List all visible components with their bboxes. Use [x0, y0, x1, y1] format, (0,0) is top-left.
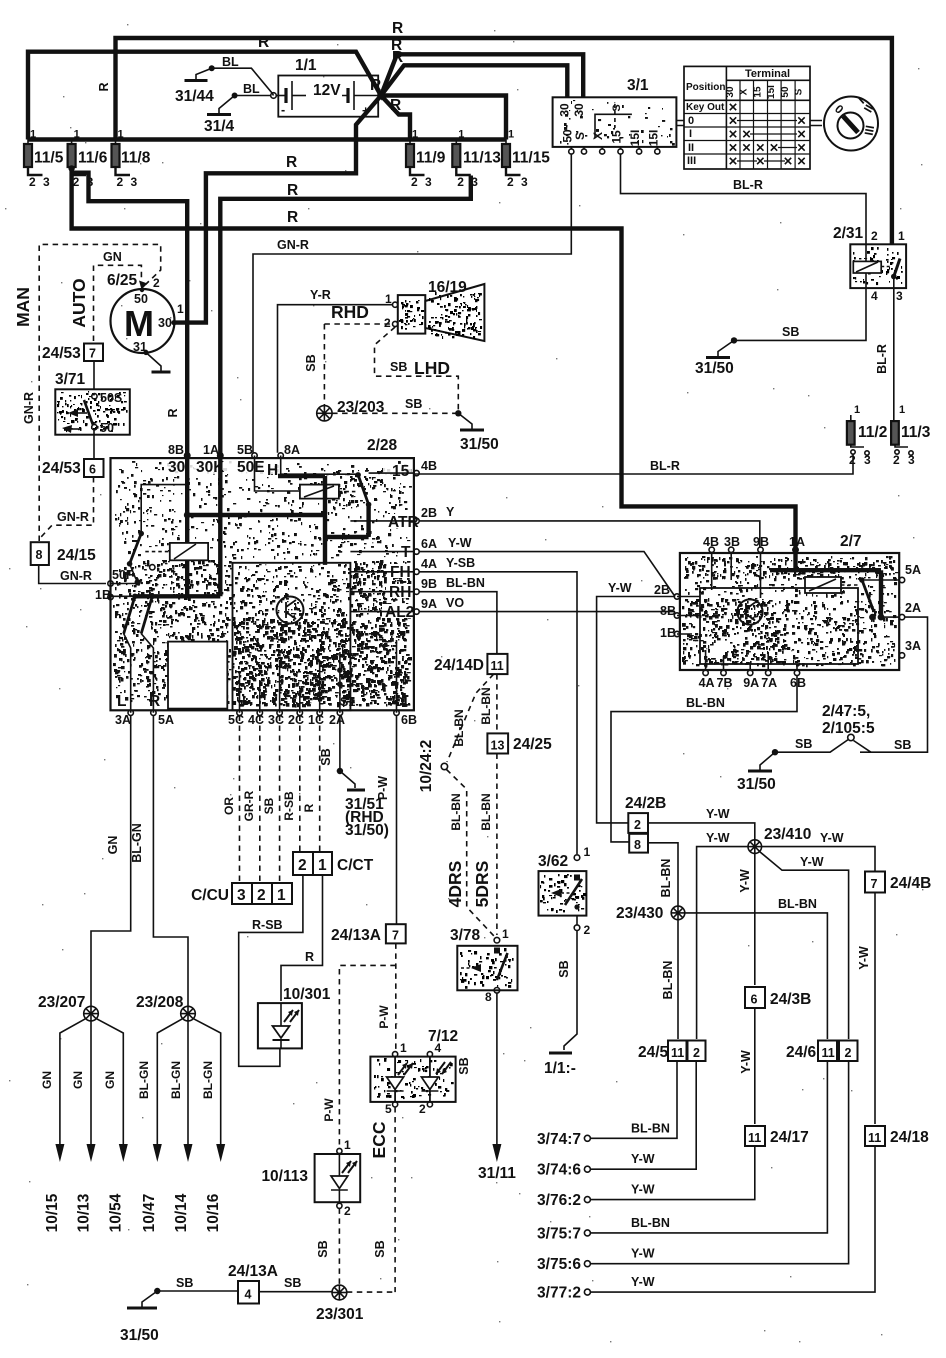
wire P-W 6B to 24/13A — [396, 716, 398, 925]
svg-text:7: 7 — [89, 347, 96, 361]
svg-text:8A: 8A — [284, 443, 300, 457]
svg-text:1C: 1C — [308, 713, 324, 727]
wire SB LHD dashed — [375, 327, 459, 410]
node 3/74:7 — [584, 1135, 590, 1141]
wire fan 23/207 — [60, 1019, 123, 1144]
svg-text:4B: 4B — [421, 459, 437, 473]
svg-text:11/3: 11/3 — [901, 424, 931, 441]
svg-text:50S: 50S — [100, 391, 122, 405]
svg-text:31/44: 31/44 — [175, 88, 214, 105]
svg-text:X: X — [591, 132, 605, 140]
svg-text:6: 6 — [89, 463, 96, 477]
wire BL-BN to 24/14D — [419, 592, 497, 653]
svg-text:3/71: 3/71 — [55, 371, 86, 388]
svg-text:GN-R: GN-R — [57, 510, 89, 524]
lamp 10/301 — [258, 986, 331, 1048]
svg-text:2: 2 — [384, 316, 391, 330]
svg-text:R: R — [149, 693, 160, 710]
lamp 10/113 — [261, 1138, 360, 1218]
switch 3/62 — [538, 845, 591, 937]
wire OR dashed — [239, 716, 241, 884]
svg-text:30: 30 — [558, 103, 572, 117]
relay unit 2/28 — [95, 437, 437, 727]
svg-text:24/53: 24/53 — [42, 345, 81, 362]
svg-text:31/50: 31/50 — [695, 360, 734, 377]
svg-text:BL-R: BL-R — [733, 178, 763, 192]
fuse 11/9 — [406, 144, 414, 167]
ground 31/50 bottom left — [154, 1288, 160, 1294]
svg-text:SB: SB — [782, 325, 799, 339]
wire GR-R dashed — [259, 716, 261, 884]
connector C/CU — [232, 883, 252, 904]
ignition switch 3/1 — [553, 77, 677, 154]
wire Y-W 23/410 left to 24/5 — [697, 847, 748, 1039]
svg-text:3A: 3A — [115, 713, 131, 727]
svg-text:15: 15 — [752, 86, 763, 98]
connector 2/47:5 2/105:5 — [854, 741, 871, 753]
svg-text:GN: GN — [103, 250, 122, 264]
wire BL-BN 2/7 6B down — [611, 676, 797, 842]
node motor pin 2 arrow — [139, 281, 148, 290]
fuse 11/2 — [847, 404, 887, 467]
svg-text:11/8: 11/8 — [121, 150, 151, 167]
node 3/75:7 — [584, 1230, 590, 1236]
wire R dashed — [319, 716, 321, 853]
wire SB 2/31 pin4 to ground — [734, 288, 866, 340]
connector 24/53 pin 6 — [84, 459, 104, 477]
svg-text:AL2: AL2 — [385, 604, 414, 621]
fuse 11/13 — [452, 144, 460, 167]
wire R F — [173, 96, 381, 323]
svg-text:R: R — [370, 77, 381, 94]
svg-text:3C: 3C — [268, 713, 284, 727]
wire BL-BN dashed to 10/24:2 — [447, 674, 494, 762]
junction 23/430 — [671, 906, 685, 920]
svg-text:1: 1 — [854, 404, 860, 416]
svg-text:6/25: 6/25 — [107, 272, 138, 289]
svg-text:2: 2 — [893, 453, 900, 467]
wire Y to 2/7 9B — [419, 521, 760, 547]
fuse 11/6 — [68, 144, 76, 167]
svg-text:11/15: 11/15 — [512, 150, 550, 167]
svg-text:11/13: 11/13 — [463, 150, 501, 167]
junction 23/410 — [748, 840, 762, 854]
svg-text:2: 2 — [29, 175, 36, 189]
svg-text:-: - — [281, 103, 285, 117]
svg-text:3: 3 — [896, 289, 903, 303]
ground 31/50 by 23/203 — [458, 413, 472, 430]
svg-text:Key Out: Key Out — [686, 102, 725, 113]
ground 31/50 top right — [718, 340, 734, 357]
svg-text:S: S — [794, 88, 805, 95]
svg-text:L: L — [117, 693, 126, 710]
connector 24/25 pin 13 — [487, 733, 508, 753]
svg-text:1: 1 — [508, 129, 514, 141]
wire R-SB to 10/301 — [239, 875, 303, 1066]
svg-text:1: 1 — [177, 302, 184, 316]
wire SB 2/7 2A to ground run — [860, 617, 928, 752]
svg-text:I: I — [689, 128, 692, 140]
arrow out — [119, 1144, 128, 1162]
wire Y-W 23/410 down — [754, 853, 756, 985]
svg-text:50: 50 — [134, 292, 148, 306]
wire Y-SB to 3/62 — [419, 572, 577, 854]
wire R D — [381, 96, 506, 140]
wire SB 2A to 31/51 — [339, 716, 341, 772]
svg-text:X: X — [739, 88, 750, 95]
wire R top A — [116, 38, 892, 257]
wire to 3/71 — [93, 361, 95, 394]
svg-text:BL: BL — [243, 82, 260, 96]
wire BL-BN 24/2B 8 to 23/430 — [648, 843, 678, 906]
svg-text:GN-R: GN-R — [60, 569, 92, 583]
svg-text:BL: BL — [222, 55, 239, 69]
wire BL-R 2/31 pin3 to fuse 11/3 — [893, 277, 895, 422]
svg-text:Y-W: Y-W — [448, 536, 472, 550]
svg-text:1: 1 — [458, 129, 464, 141]
svg-text:RHD: RHD — [331, 302, 369, 322]
svg-text:1A: 1A — [203, 443, 219, 457]
svg-text:11/5: 11/5 — [34, 150, 64, 167]
svg-text:II: II — [688, 142, 694, 154]
svg-text:3/1: 3/1 — [627, 77, 649, 94]
svg-text:0: 0 — [688, 115, 694, 127]
svg-text:GN-R: GN-R — [22, 392, 36, 424]
2/28 inner module box — [233, 563, 351, 711]
svg-text:Terminal: Terminal — [745, 68, 790, 80]
wire BL-R 3/1 pin15 to 2/31 — [621, 154, 867, 244]
wire Y-R 2/28 8A to 16/19 — [278, 305, 393, 453]
wire SB to 24/13A 4 — [157, 1290, 238, 1292]
wires below 24/6 — [591, 1061, 828, 1233]
wire BL-BN 23/430 down to 24/5 — [677, 920, 679, 1039]
svg-text:31/50: 31/50 — [460, 436, 499, 453]
svg-text:S1: S1 — [340, 695, 355, 709]
svg-text:3: 3 — [425, 175, 432, 189]
switch 3/71 — [55, 371, 130, 435]
svg-text:VO: VO — [446, 596, 464, 610]
svg-text:BL-BN: BL-BN — [446, 576, 485, 590]
svg-text:R: R — [166, 408, 180, 417]
wire R B — [28, 52, 583, 140]
svg-text:1: 1 — [898, 229, 905, 243]
svg-text:M: M — [124, 303, 154, 344]
2/28 internal relay 1 — [280, 456, 282, 477]
svg-text:2: 2 — [153, 276, 160, 290]
svg-text:16/19: 16/19 — [428, 279, 467, 296]
wire to 24/53 pin 6 — [93, 430, 95, 459]
junction 23/208 — [181, 1006, 196, 1021]
svg-text:15: 15 — [392, 463, 410, 480]
2/7 inner box — [700, 588, 858, 664]
svg-text:4A: 4A — [421, 557, 437, 571]
arrow out — [153, 1144, 162, 1162]
svg-text:5A: 5A — [158, 713, 174, 727]
horn 16/19 — [384, 279, 484, 341]
ignition key symbol — [676, 94, 878, 150]
svg-text:S: S — [573, 132, 587, 140]
ground 31/44 — [196, 68, 212, 80]
svg-text:30: 30 — [572, 103, 586, 117]
svg-text:SB: SB — [304, 354, 318, 371]
svg-text:1: 1 — [118, 129, 124, 141]
dashed MAN route — [39, 244, 161, 541]
arrow out — [184, 1144, 193, 1162]
2/28 internal relay 2 — [141, 485, 187, 534]
connector 24/18 — [865, 1126, 885, 1146]
wire fan 23/208 — [157, 1019, 220, 1144]
svg-text:3: 3 — [131, 175, 138, 189]
node 3/77:2 — [584, 1289, 590, 1295]
svg-text:3: 3 — [43, 175, 50, 189]
svg-text:R: R — [286, 154, 297, 171]
svg-text:5C: 5C — [228, 713, 244, 727]
svg-text:2: 2 — [507, 175, 514, 189]
wire GN-R 3/1 pin50 to 2/28 5B — [253, 154, 571, 453]
arrow 31/11 — [492, 1144, 501, 1162]
relay 2/31 — [833, 225, 906, 303]
wire GN-R to 2/28 50F — [39, 565, 106, 584]
svg-text:T: T — [401, 544, 411, 561]
2/7 internal relay coil — [805, 577, 841, 593]
svg-text:24/53: 24/53 — [42, 460, 81, 477]
wire R3 from 11/6 to 2/7 pin 1A — [68, 165, 74, 171]
svg-text:2: 2 — [871, 229, 878, 243]
svg-text:50E: 50E — [237, 459, 265, 476]
wire BL-BN dashed to 24/25 — [496, 674, 498, 733]
svg-text:9B: 9B — [421, 577, 437, 591]
junction 23/301 — [332, 1285, 347, 1300]
ground 31/4 — [219, 96, 235, 115]
arrow out — [216, 1144, 225, 1162]
connector 24/14D pin 11 — [487, 654, 507, 674]
svg-text:15I: 15I — [766, 85, 777, 99]
svg-text:AUTO: AUTO — [69, 278, 89, 327]
junction 23/207 — [84, 1006, 99, 1021]
2/28 internal thick wiring — [278, 476, 325, 537]
svg-text:LHD: LHD — [414, 358, 450, 378]
fuse 11/3 — [891, 404, 931, 467]
wire fuse bus — [28, 137, 506, 141]
connector C/CT — [293, 852, 313, 875]
svg-text:R: R — [390, 97, 401, 114]
2/28 L R switches — [132, 594, 138, 600]
svg-text:50F: 50F — [112, 568, 134, 582]
connector 24/17 — [745, 1126, 765, 1146]
wire GN 2/28 3A down — [91, 716, 131, 1007]
connector 24/53 pin 7 — [84, 344, 103, 362]
junction 23/203 — [317, 406, 332, 421]
wire RHD dashed — [324, 323, 392, 325]
motor 6/25 — [107, 272, 184, 354]
svg-text:BL-R: BL-R — [650, 459, 680, 473]
connector 24/4B pin 7 — [865, 872, 885, 893]
ground 31/50 mid right — [760, 752, 775, 771]
svg-text:9A: 9A — [421, 597, 437, 611]
wire SB dashed — [279, 716, 281, 884]
svg-text:30: 30 — [725, 86, 736, 98]
2/28 transistor symbol — [277, 597, 304, 624]
svg-text:R: R — [97, 82, 111, 91]
connector 24/2B pin 8 — [629, 834, 648, 853]
wire P-W dashed to 7/12 and 10/113 — [395, 943, 397, 1052]
wire dashed 23/301 to ECC — [347, 1291, 395, 1293]
svg-text:50: 50 — [100, 421, 114, 435]
svg-text:SB: SB — [405, 397, 422, 411]
svg-text:2/28: 2/28 — [367, 437, 398, 454]
svg-text:GN-R: GN-R — [277, 238, 309, 252]
dashed AUTO route GN — [94, 265, 142, 341]
svg-text:MAN: MAN — [13, 287, 33, 327]
svg-text:5B: 5B — [237, 443, 253, 457]
svg-text:Y-SB: Y-SB — [446, 556, 475, 570]
svg-text:31/4: 31/4 — [204, 118, 235, 135]
wire Y-W 23/410 diagonal branch — [760, 852, 849, 1040]
svg-text:Position: Position — [686, 82, 725, 93]
2/7 internal switch — [859, 577, 865, 583]
svg-text:BL-R: BL-R — [875, 344, 889, 374]
svg-text:30: 30 — [168, 459, 185, 476]
connector 24/5 — [668, 1041, 687, 1062]
wire SB to 23/301 — [259, 1291, 332, 1293]
wire BL-BN 4DRS dashed — [447, 770, 495, 937]
2/28 output stub wires — [350, 521, 414, 612]
connector 24/6 — [818, 1041, 837, 1062]
svg-text:S: S — [611, 104, 623, 111]
wire SB dashed right — [332, 412, 458, 414]
svg-text:2: 2 — [457, 175, 464, 189]
wires below 24/5 — [591, 1061, 678, 1138]
connector 24/13A pin 4 — [238, 1281, 259, 1304]
relay unit 2/7 — [654, 533, 921, 690]
svg-text:1: 1 — [899, 404, 905, 416]
svg-text:30: 30 — [158, 316, 172, 330]
svg-text:R: R — [287, 182, 298, 199]
svg-text:1: 1 — [385, 292, 392, 306]
wire R 11/6 to 2/28 pin 8B — [72, 173, 188, 456]
svg-text:11/9: 11/9 — [416, 150, 446, 167]
battery 1/1 — [271, 57, 385, 118]
arrow out — [55, 1144, 64, 1162]
connector 24/15 pin 8 — [31, 542, 49, 565]
fuse 11/5 — [24, 144, 32, 167]
svg-text:15: 15 — [610, 130, 624, 144]
wire R2 11/13 to 2/28 pin 1A — [220, 176, 470, 456]
svg-text:1: 1 — [30, 129, 36, 141]
2/7 internal thick path — [770, 553, 881, 617]
svg-text:2A: 2A — [329, 713, 345, 727]
svg-text:2C: 2C — [288, 713, 304, 727]
svg-text:6B: 6B — [401, 713, 417, 727]
fuse 11/8 — [112, 144, 120, 167]
wire BL-GN 2/28 5A down — [153, 716, 188, 1007]
wire BL-BN 5DRS dashed — [496, 754, 498, 936]
svg-text:SB: SB — [390, 360, 407, 374]
wire Y-W 24/2B to 23/410 — [648, 823, 755, 840]
2/28 white box — [168, 642, 227, 709]
wire Y-W to 2/7 2B — [419, 552, 675, 597]
2/7 stub wires — [712, 553, 761, 598]
arrow out — [87, 1144, 96, 1162]
svg-text:R: R — [287, 209, 298, 226]
svg-text:+: + — [362, 104, 369, 118]
svg-text:R: R — [392, 20, 403, 37]
wire BL 31/44 — [212, 68, 274, 95]
svg-text:8B: 8B — [168, 443, 184, 457]
svg-text:R: R — [258, 34, 269, 51]
wire ECC dashed — [394, 1107, 396, 1292]
svg-text:3: 3 — [908, 453, 915, 467]
svg-text:15I: 15I — [628, 130, 642, 147]
wire VO to 2/7 8B — [419, 611, 675, 613]
wire BL 31/4 — [235, 95, 271, 97]
svg-text:11/6: 11/6 — [78, 150, 108, 167]
wire Y-W 23/410 right to 24/4B — [762, 847, 875, 871]
svg-text:3: 3 — [521, 175, 528, 189]
svg-text:8: 8 — [36, 548, 43, 562]
wire BL-R 2/28 4B to fuse 11/2 — [414, 454, 853, 475]
svg-text:1/1: 1/1 — [295, 57, 317, 74]
svg-text:3: 3 — [864, 453, 871, 467]
svg-text:H: H — [267, 462, 278, 479]
connector 24/2B pin 2 — [628, 813, 648, 833]
wire R E — [381, 96, 410, 140]
svg-text:2: 2 — [411, 175, 418, 189]
wire R to 10/301 — [281, 875, 323, 1001]
fuse 11/15 — [502, 144, 510, 167]
connector 24/13A pin 7 — [386, 924, 406, 943]
svg-text:50: 50 — [780, 86, 791, 98]
wire R-SB dashed — [299, 716, 301, 853]
svg-text:1: 1 — [74, 129, 80, 141]
wire SB to 31/11 — [496, 993, 498, 1144]
svg-text:6A: 6A — [421, 537, 437, 551]
svg-text:Y-R: Y-R — [310, 288, 331, 302]
svg-text:4C: 4C — [248, 713, 264, 727]
connector 24/3B pin 6 — [745, 987, 765, 1008]
wire Y-W branch to 24/2B — [597, 597, 675, 823]
wire SB dashed 10/113 to 23/301 — [338, 1208, 340, 1284]
svg-text:2/31: 2/31 — [833, 225, 864, 242]
svg-text:2B: 2B — [421, 506, 437, 520]
switch 3/78 — [450, 927, 518, 1004]
node 10/24:2 — [441, 763, 447, 769]
ground 1/1:- — [549, 1052, 572, 1055]
svg-text:2: 2 — [117, 175, 124, 189]
svg-text:24/15: 24/15 — [57, 547, 96, 564]
node 3/76:2 — [584, 1197, 590, 1203]
wire BL-BN 23/430 right — [685, 913, 828, 1039]
svg-text:12V: 12V — [313, 82, 341, 99]
node 3/75:6 — [584, 1261, 590, 1267]
svg-text:15I: 15I — [646, 130, 660, 147]
node 3/74:6 — [584, 1166, 590, 1172]
ground motor 31 — [143, 350, 148, 355]
terminal table — [684, 66, 810, 169]
svg-text:1: 1 — [412, 129, 418, 141]
wire SB dashed down — [323, 324, 325, 406]
wire Y-W 24/4B down — [874, 893, 876, 1125]
svg-text:III: III — [687, 155, 696, 167]
wire R C — [381, 65, 567, 97]
svg-text:4: 4 — [871, 289, 878, 303]
lamp unit 7/12 — [370, 1028, 458, 1116]
svg-text:Y: Y — [446, 505, 455, 519]
wire SB 3/62 to ground — [564, 916, 577, 1050]
svg-text:R: R — [392, 49, 403, 66]
dashed GN-R to 24/15 — [39, 477, 93, 539]
svg-text:11/2: 11/2 — [858, 424, 887, 441]
